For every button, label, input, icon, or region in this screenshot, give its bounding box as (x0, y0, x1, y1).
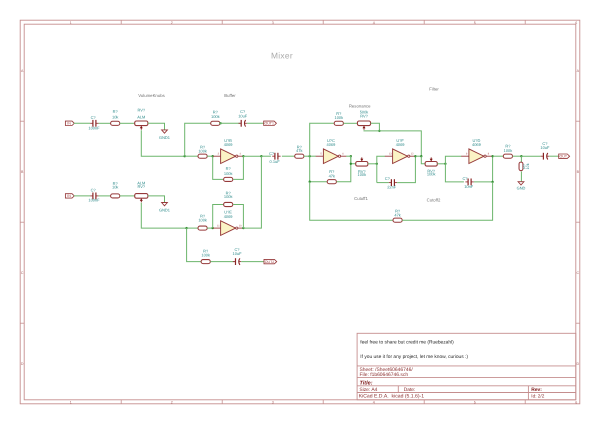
svg-text:C?: C? (269, 151, 275, 156)
junction resonance bus (378, 130, 380, 132)
junction U?D output (491, 155, 493, 157)
svg-text:Buffer: Buffer (224, 93, 236, 98)
global label IN (channel 2) (65, 194, 74, 199)
resistor R? 47k (filter input) (295, 144, 304, 158)
svg-text:Filter: Filter (429, 87, 439, 92)
capacitor C? 10uF (OUT2 branch) (233, 247, 243, 265)
svg-text:D: D (576, 362, 579, 366)
svg-text:C?: C? (91, 188, 97, 193)
wire U?E feedback right (233, 205, 243, 229)
resistor R? 100k (U?E feedback) (224, 190, 233, 206)
wire node A to R buffer1 (185, 155, 198, 157)
svg-text:C: C (576, 271, 579, 275)
svg-text:4069: 4069 (472, 142, 481, 147)
potentiometer RV? ALM (volume channel 1) (135, 108, 148, 130)
svg-text:10uF: 10uF (238, 113, 248, 118)
wire U?E feedback left (213, 205, 224, 229)
wire R to U?C input (304, 155, 316, 157)
junction cutoff1 node (376, 163, 378, 165)
svg-text:D: D (21, 362, 24, 366)
wire down to C 10nF (445, 164, 464, 182)
svg-text:IN: IN (67, 122, 71, 126)
ground GND1 (channel 1) (159, 130, 170, 140)
wire output node to C 10uF (521, 155, 540, 157)
resistor R? 100k (into U?E) (198, 213, 207, 230)
svg-text:C?: C? (462, 176, 468, 181)
wire RV1 to GND1 (148, 123, 165, 129)
wire down to C 22nF (376, 164, 378, 183)
svg-text:1: 1 (70, 21, 72, 25)
wire to C 22nF left (377, 182, 389, 184)
svg-text:OUT1: OUT1 (264, 122, 273, 126)
wire big loop left (310, 182, 394, 221)
junction U?F output (414, 155, 416, 157)
wire node B down to OUT2 branch (187, 228, 201, 262)
svg-text:2: 2 (171, 400, 173, 404)
capacitor C? 0.1uF (mix coupling) (269, 151, 281, 164)
svg-text:Cutoff1: Cutoff1 (354, 196, 368, 201)
junction cutoff2 node (444, 163, 446, 165)
inverter U?B 4069 (channel 1 buffer) (213, 138, 244, 164)
resistor R? 100k (resonance) (334, 111, 343, 125)
wire pot1 to node (368, 163, 377, 165)
wire C1 to R1 (99, 122, 111, 124)
svg-text:RV?: RV? (138, 184, 146, 189)
svg-text:1: 1 (70, 400, 72, 404)
inverter U?D 4069 (output stage) (461, 138, 492, 164)
ground GND (output) (517, 182, 526, 191)
inverter U?E 4069 (channel 2 buffer) (213, 210, 244, 236)
svg-text:KiCad E.D.A. kicad (5.1.6)-1: KiCad E.D.A. kicad (5.1.6)-1 (359, 394, 425, 400)
svg-text:Date:: Date: (404, 387, 416, 393)
wire U?E out up to mix node (243, 156, 261, 228)
wire R to C (OUT1 branch) (220, 122, 240, 124)
junction at R right (OUT1 branch) (219, 122, 221, 124)
capacitor C? 100nF (channel 2 input) (88, 188, 100, 203)
wire R to RV resonance (343, 122, 357, 124)
svg-text:10nF: 10nF (464, 184, 474, 189)
wire U?C feedback left (310, 156, 327, 182)
wire C to OUT2 label (241, 261, 264, 263)
svg-text:100k: 100k (358, 172, 367, 177)
wire RV right to resonance bus (371, 123, 380, 131)
wire down to R 10k (520, 156, 522, 162)
wire R to C (OUT2 branch) (210, 261, 235, 263)
capacitor C? 22nF (U?F integrator) (385, 176, 397, 190)
svg-text:Id: 2/2: Id: 2/2 (531, 394, 544, 399)
title block kicad row (359, 394, 545, 400)
resistor R? 100k (OUT1 branch) (211, 109, 220, 125)
svg-text:10k: 10k (112, 115, 118, 120)
svg-text:If you use it for any project,: If you use it for any project, let me kn… (360, 354, 468, 360)
wire down to cutoff pot 2 (421, 156, 425, 164)
svg-text:47k: 47k (394, 212, 400, 217)
svg-text:6: 6 (575, 21, 577, 25)
svg-text:100k: 100k (201, 252, 210, 257)
junction U?E input (212, 227, 214, 229)
junction U?C output (350, 155, 352, 157)
svg-text:100nF: 100nF (88, 197, 100, 202)
potentiometer RV? 100k (Cutoff2) (425, 157, 437, 176)
global label IN (channel 1) (65, 121, 74, 126)
svg-text:OUT: OUT (560, 155, 568, 159)
svg-text:GND1: GND1 (159, 208, 170, 213)
junction mix node (260, 155, 262, 157)
svg-text:6: 6 (575, 400, 577, 404)
wire U?B out to mix node (243, 155, 261, 157)
wire IN2 to C2 (74, 195, 90, 197)
inverter U?C 4069 (filter stage 1) (316, 138, 347, 164)
svg-text:100k: 100k (335, 115, 344, 120)
svg-text:10uF: 10uF (540, 145, 550, 150)
svg-text:100k: 100k (198, 149, 207, 154)
svg-text:100k: 100k (224, 171, 233, 176)
capacitor C? 100nF (channel 1 input) (88, 115, 100, 131)
wire RV2 wiper to node B (141, 203, 186, 228)
inverter U?F 4069 (filter stage 2) (385, 138, 416, 164)
svg-text:47k: 47k (296, 148, 302, 153)
wire up to U?D input (445, 156, 461, 164)
svg-text:100k: 100k (211, 114, 220, 119)
wire up to U?F input (377, 156, 385, 164)
wire R 10k to GND (520, 172, 522, 182)
wire R to output node (513, 155, 522, 157)
svg-text:C?: C? (91, 115, 97, 120)
svg-text:4069: 4069 (224, 214, 233, 219)
wire C to R 47k (282, 155, 295, 157)
wire mix node to C (261, 155, 271, 157)
svg-text:100k: 100k (198, 217, 207, 222)
svg-text:3: 3 (272, 400, 274, 404)
svg-text:100k: 100k (504, 148, 513, 153)
svg-text:4: 4 (373, 400, 375, 404)
wire R to U?B input (207, 155, 213, 157)
capacitor C? 10nF (U?D feedback) (462, 176, 473, 189)
junction below U?C output (350, 163, 352, 165)
resistor R? 100k (into U?B) (198, 144, 207, 158)
capacitor C? 10uF (OUT1 branch) (238, 109, 248, 127)
junction U?B input (212, 155, 214, 157)
svg-text:IN: IN (67, 194, 71, 198)
svg-text:Resonance: Resonance (349, 103, 371, 108)
potentiometer RV? ALM (volume channel 2) (135, 180, 148, 202)
resistor R? 100k (U?B feedback) (224, 166, 233, 181)
junction output node (520, 155, 522, 157)
junction U?C input node (309, 155, 311, 157)
ground GND1 (channel 2) (159, 203, 170, 213)
wire C to OUT label (549, 155, 559, 157)
junction node B (ch2 tap) (185, 227, 187, 229)
capacitor C? 10uF (output coupling) (540, 141, 550, 160)
svg-text:ALM: ALM (137, 114, 145, 119)
junction node A (ch1 tap) (184, 155, 186, 157)
svg-text:RV?: RV? (138, 108, 146, 113)
svg-text:GND: GND (517, 185, 526, 190)
global label OUT (559, 154, 570, 159)
svg-text:47k: 47k (329, 173, 335, 178)
wire U?B feedback left (213, 156, 224, 179)
junction U?E output (242, 227, 244, 229)
resistor R? 10k (channel 2) (111, 181, 120, 198)
junction U?C feedback node (309, 181, 311, 183)
svg-text:100k: 100k (427, 172, 436, 177)
junction resonance join (420, 155, 422, 157)
svg-text:feel free to share but credit: feel free to share but credit me (Ruebez… (360, 340, 454, 346)
wire R2 to RV2 (120, 195, 135, 197)
wire R1 to RV1 (120, 122, 135, 124)
resistor R? 47k (U?C feedback) (327, 169, 336, 184)
svg-text:Size: A4: Size: A4 (359, 387, 377, 393)
wire U?D out to R 100k (493, 155, 504, 157)
svg-text:Cutoff2: Cutoff2 (427, 198, 441, 203)
wire U?C out down to cutoff pot 1 (351, 156, 356, 164)
svg-text:4069: 4069 (396, 142, 405, 147)
svg-text:4: 4 (373, 21, 375, 25)
svg-text:R?: R? (113, 109, 119, 114)
svg-text:File: f1b60646746.sch: File: f1b60646746.sch (360, 372, 409, 378)
junction U?B output (242, 155, 244, 157)
wire RV2 to GND1 (148, 196, 165, 202)
wire U?F out to resonance join (415, 155, 421, 157)
svg-text:Rev:: Rev: (531, 387, 542, 393)
svg-text:5: 5 (474, 400, 476, 404)
svg-text:2: 2 (171, 21, 173, 25)
svg-text:RV?: RV? (360, 114, 368, 119)
svg-text:C: C (21, 271, 24, 275)
junction feedback crossing (491, 181, 493, 183)
svg-text:10uF: 10uF (233, 251, 243, 256)
svg-text:100k: 100k (224, 194, 233, 199)
resistor R? 100k (OUT2 branch) (201, 248, 210, 263)
wire R to U?E input (207, 227, 213, 229)
svg-text:10k: 10k (112, 185, 118, 190)
svg-text:GND1: GND1 (159, 135, 170, 140)
wire C2 to R2 (99, 195, 111, 197)
wire big loop right (402, 182, 492, 220)
resistor R? 10k (output load) (519, 162, 530, 171)
svg-text:100nF: 100nF (88, 126, 100, 131)
svg-text:Title:: Title: (360, 380, 373, 386)
wire U?C input up to resonance (310, 123, 335, 156)
title block box (357, 333, 576, 400)
svg-text:VolumeKnobs: VolumeKnobs (138, 93, 165, 98)
svg-text:OUT2: OUT2 (265, 260, 274, 264)
wire pot2 to node (437, 163, 445, 165)
wire C 10nF right up (474, 156, 493, 182)
resistor R? 47k (filter feedback) (393, 208, 402, 222)
wire node B to R buffer2 (187, 227, 198, 229)
title block size row (359, 387, 542, 393)
wire C 22nF right up (397, 156, 415, 182)
svg-text:3: 3 (272, 21, 274, 25)
svg-text:C?: C? (385, 176, 391, 181)
wire U?B feedback right (233, 156, 243, 179)
global label OUT1 (264, 121, 277, 126)
svg-text:5: 5 (474, 21, 476, 25)
wire resonance wiper bus down (364, 130, 421, 156)
svg-text:22nF: 22nF (387, 184, 397, 189)
resistor R? 100k (output) (503, 144, 512, 159)
wire C to OUT1 label (247, 122, 264, 124)
potentiometer RV? 100k (Cutoff1) (356, 157, 368, 177)
wire U?C feedback right (337, 156, 351, 182)
wire node A up to OUT1 branch (185, 123, 211, 156)
svg-text:Mixer: Mixer (271, 50, 293, 60)
svg-text:0.1uF: 0.1uF (270, 159, 281, 164)
resistor R? 10k (channel 1) (111, 109, 120, 125)
potentiometer RV? 500k (resonance) (357, 110, 370, 130)
svg-text:10k: 10k (526, 163, 530, 169)
global label OUT2 (264, 259, 277, 264)
wire IN1 to C1 (74, 122, 90, 124)
svg-text:4069: 4069 (224, 142, 233, 147)
wire RV1 wiper to node A (141, 130, 184, 156)
svg-text:4069: 4069 (327, 142, 336, 147)
wire U?C output to junction (346, 155, 351, 157)
